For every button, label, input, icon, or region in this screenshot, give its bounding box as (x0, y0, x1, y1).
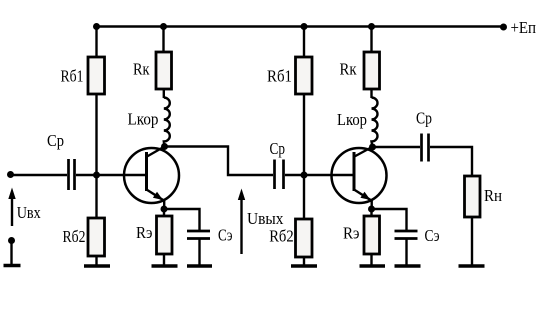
transistor T2 (332, 147, 387, 209)
wire Re2 to ground (370, 254, 372, 265)
ground under Re2 (360, 264, 386, 267)
ground under Ce1 (187, 264, 212, 267)
svg-text:Ср: Ср (416, 109, 432, 128)
wire input to Cp1 (11, 174, 68, 176)
wire base node to T2 base (304, 174, 354, 176)
svg-text:Ср: Ср (270, 139, 286, 158)
node base divider stage1 (93, 172, 100, 179)
arrow Uvyx output voltage (238, 189, 245, 255)
capacitor Ce (stage 2) (395, 231, 418, 239)
wire top supply rail (97, 25, 504, 27)
node input lower terminal (8, 237, 15, 244)
capacitor Cp (output) (422, 134, 429, 162)
wire Rb2-2 to ground (303, 257, 305, 265)
wire Rk-1 to coil (163, 89, 165, 98)
wire Rb1-2 to base node (303, 94, 305, 175)
capacitor Cp (interstage) (275, 160, 284, 190)
wire rail to Rb1-1 (95, 27, 97, 58)
wire Re1 to ground (163, 254, 165, 265)
capacitor Ce (stage 1) (187, 231, 210, 239)
resistor Rk (stage 1) (156, 52, 172, 89)
resistor Rk (stage 2) (364, 52, 380, 89)
wire emitter node to Ce1 (164, 209, 200, 231)
svg-text:Lкор: Lкор (128, 110, 159, 129)
node collector stage1 (161, 143, 168, 150)
node +Ep supply terminal (500, 24, 507, 31)
wire Rb2-1 to ground (95, 256, 97, 265)
wire rail to Rb1-2 (303, 27, 305, 58)
svg-text:Lкор: Lкор (337, 110, 367, 129)
ground under Rb2-2 (291, 264, 317, 267)
ground under Rb2-1 (84, 264, 110, 267)
resistor Rb1 (stage 2) (296, 57, 313, 94)
svg-text:Сэ: Сэ (218, 226, 233, 245)
resistor Re (stage 1) (157, 216, 173, 254)
resistor Rn load (465, 176, 481, 217)
node rail junction stage2 Rk (368, 23, 375, 30)
wire collector T2 to Cp3 (373, 146, 421, 148)
wire emitter node 2 to Ce2 (372, 209, 407, 231)
svg-text:Rэ: Rэ (343, 224, 360, 243)
svg-text:Rэ: Rэ (136, 223, 153, 242)
transistor T1 (124, 147, 179, 210)
wire Cp2 to base node stage2 (285, 174, 304, 176)
node rail junction stage2 divider (301, 23, 308, 30)
resistor Rb1 (stage 1) (88, 57, 105, 94)
arrow Uvx input voltage (8, 188, 15, 227)
ground under Re1 (152, 264, 178, 267)
inductor Lkor (stage 2) (372, 98, 378, 148)
svg-text:Сэ: Сэ (425, 226, 440, 245)
wire rail to Rk-1 (162, 27, 164, 53)
ground under Ce2 (395, 264, 421, 267)
svg-text:Rн: Rн (484, 186, 502, 205)
wire base node to Rb2-1 (95, 175, 97, 218)
node collector stage2 (369, 144, 376, 151)
wire Rb1-1 to base node (95, 94, 97, 175)
capacitor Cp (input) (69, 159, 75, 190)
wire rail to Rk-2 (370, 27, 372, 53)
node rail junction stage1 divider (93, 23, 100, 30)
wire Rn to ground (471, 217, 473, 265)
inductor Lkor (stage 1) (164, 98, 170, 147)
wire Ce1 to ground (198, 239, 200, 266)
svg-text:Uвых: Uвых (247, 209, 284, 228)
ground input (4, 264, 21, 267)
wire collector T1 to Cp2 (165, 147, 274, 176)
node rail junction stage1 Rk (160, 23, 167, 30)
svg-text:Rб2: Rб2 (63, 227, 86, 246)
resistor Rb2 (stage 1) (88, 218, 105, 256)
svg-text:Uвх: Uвх (17, 203, 41, 222)
node base divider stage2 (301, 172, 308, 179)
svg-text:Ср: Ср (47, 131, 64, 150)
svg-text:Rб1: Rб1 (267, 67, 292, 86)
resistor Re (stage 2) (364, 216, 380, 254)
wire Cp1 to base T1 (76, 174, 147, 176)
svg-text:Rк: Rк (340, 60, 358, 79)
wire base node to Rb2-2 (303, 175, 305, 219)
node emitter stage2 (368, 206, 375, 213)
ground under Rn (459, 264, 485, 267)
resistor Rb2 (stage 2) (296, 219, 313, 257)
wire emitter T1 to Re1 (163, 209, 165, 216)
svg-text:+Еп: +Еп (511, 18, 537, 37)
svg-text:Rб2: Rб2 (269, 226, 294, 245)
wire Cp3 to Rn (430, 147, 472, 176)
svg-text:Rк: Rк (133, 60, 150, 79)
node input terminal (7, 171, 14, 178)
wire Ce2 to ground (405, 239, 407, 266)
wire emitter T2 to Re2 (370, 209, 372, 216)
wire lower terminal to ground (10, 241, 12, 265)
wire Rk-2 to coil (370, 89, 372, 98)
node emitter stage1 (161, 206, 168, 213)
svg-text:Rб1: Rб1 (61, 67, 84, 86)
